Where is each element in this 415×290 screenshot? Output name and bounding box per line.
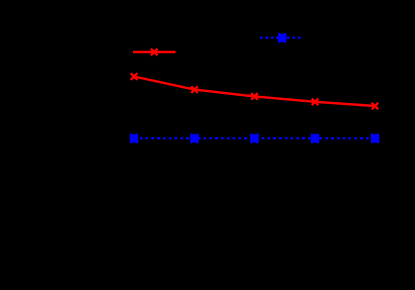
red marker 1 [131,73,138,80]
blue marker 1 [130,134,138,143]
red marker 3 [251,93,258,100]
red marker 5 [372,103,379,110]
red series line [134,77,375,107]
blue marker 5 [371,134,379,143]
legend blue dashed sample line [260,37,300,40]
legend blue square marker [278,33,286,42]
red marker 4 [312,99,319,106]
blue marker 2 [190,134,198,143]
legend red x marker [151,49,158,56]
blue marker 4 [311,134,319,143]
blue marker 3 [250,134,258,143]
blue series dotted line [134,137,375,140]
red marker 2 [191,86,198,93]
legend red sample line [133,51,176,53]
